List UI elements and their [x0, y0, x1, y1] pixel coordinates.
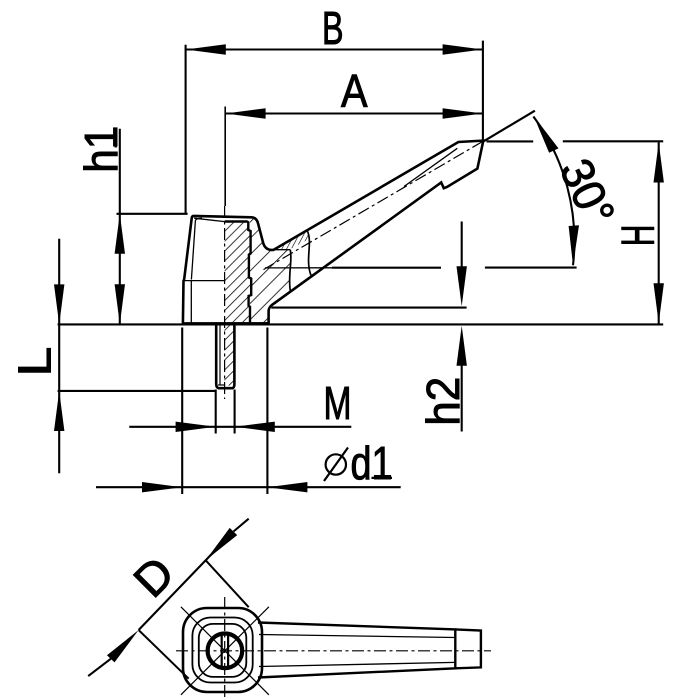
h2 upper arrow	[457, 266, 467, 306]
30 deg arc	[533, 117, 574, 266]
h2 lower tail	[461, 366, 463, 432]
dimension h2 upper tail	[461, 222, 463, 267]
lever body outline (section view)	[183, 141, 483, 324]
arc lower arrow	[569, 225, 579, 265]
B left arrow	[186, 44, 226, 54]
serif of digit 1 in d1	[372, 477, 393, 479]
h2 lower arrow	[457, 326, 467, 366]
dimension B line	[186, 48, 483, 50]
h2 top reference line	[271, 307, 466, 309]
stud end chamfer line	[218, 384, 225, 386]
A/B right extension line	[482, 41, 484, 142]
plan view diagonal centerline 2	[181, 607, 269, 695]
A left extension line	[224, 107, 226, 207]
partial-section break line 2	[307, 231, 311, 276]
body bottom face	[183, 322, 269, 325]
M right extension line	[234, 390, 236, 434]
hatch: stud half-section	[224, 325, 234, 386]
A right arrow	[443, 108, 483, 118]
B left extension line	[185, 45, 187, 214]
D upper extension line	[206, 560, 249, 607]
svg-text:h1: h1	[75, 126, 127, 173]
arm section band bottom line	[274, 249, 290, 251]
arm axis centerline	[264, 141, 484, 270]
h1 bottom arrow	[115, 284, 125, 324]
h1 top reference line	[117, 213, 188, 215]
hatch: lever arm root section band	[274, 230, 309, 249]
dimension D line	[139, 553, 213, 630]
svg-text:M: M	[324, 377, 352, 429]
seat reference line	[58, 323, 664, 325]
H bottom arrow	[654, 283, 664, 323]
H top arrow	[654, 143, 664, 183]
30 deg slant line	[484, 111, 535, 142]
insert thread profile	[225, 222, 252, 324]
dimension L line	[58, 239, 60, 473]
diameter symbol	[324, 448, 348, 482]
knob inner lower contour	[190, 281, 192, 324]
D upper arrow tail	[234, 519, 249, 532]
oed1 right arrow	[267, 482, 307, 492]
arm top ridge line near tip	[404, 148, 457, 186]
plan view arm end cap	[455, 629, 481, 668]
svg-text:B: B	[322, 2, 344, 54]
L bottom reference line	[58, 390, 216, 392]
hatch: steel insert half-section	[225, 222, 252, 324]
svg-text:h2: h2	[417, 377, 469, 426]
knob waist line	[183, 280, 225, 282]
plan view ring 3	[199, 624, 247, 677]
oed1 left extension line	[181, 328, 183, 495]
plan view threaded hole bold circle	[208, 634, 243, 669]
plan view arm inner top line	[259, 635, 455, 638]
M right arrow	[235, 422, 275, 432]
H top reference line left part	[487, 140, 534, 142]
oed1 right extension line	[266, 328, 268, 495]
knob rim chamfer line	[194, 218, 224, 221]
dimension h1 line	[119, 129, 121, 324]
plan view vertical centerline	[224, 597, 226, 700]
plan view stud flats	[221, 633, 223, 669]
L upper arrow	[54, 284, 64, 324]
svg-text:d1: d1	[351, 437, 393, 489]
serif of digit 1 in h1	[115, 128, 117, 148]
H top reference line right part	[563, 140, 663, 142]
plan view outer squircle	[183, 608, 262, 692]
oed1 left arrow	[142, 482, 182, 492]
plan view arm inner bottom line	[259, 662, 455, 666]
D upper arrow	[206, 528, 238, 560]
M left extension line	[215, 390, 217, 434]
dimension A line	[225, 112, 482, 114]
plan view ring 2	[192, 618, 252, 683]
B right arrow	[443, 44, 483, 54]
plan view horizontal centerline	[176, 650, 491, 652]
dimension oed1 line	[96, 486, 401, 488]
M left arrow	[176, 422, 216, 432]
arc upper arrow	[534, 116, 559, 153]
L lower arrow	[54, 391, 64, 431]
plan view diagonal centerline 1	[181, 607, 269, 695]
hub centerline	[224, 206, 226, 399]
D lower arrow tail	[88, 659, 111, 676]
hatch: plastic body half-section	[250, 217, 290, 324]
svg-text:L: L	[9, 347, 61, 377]
D lower extension line	[139, 630, 189, 679]
dimension M line	[129, 426, 351, 428]
svg-text:H: H	[612, 225, 664, 247]
30 deg horizontal reference right segment	[485, 267, 577, 269]
plan view arm outline	[258, 623, 455, 678]
30 deg horizontal reference thin	[265, 267, 332, 269]
partial-section break line 1	[290, 250, 291, 292]
stud outline	[216, 325, 234, 389]
stud side contour	[219, 325, 221, 385]
h1 top arrow	[115, 214, 125, 254]
svg-text:A: A	[341, 65, 368, 117]
knob inner cone contour	[191, 218, 202, 279]
dimension H line	[658, 142, 660, 323]
D lower arrow	[107, 630, 139, 662]
30 deg horizontal reference bold	[332, 267, 441, 269]
A left arrow	[226, 108, 266, 118]
